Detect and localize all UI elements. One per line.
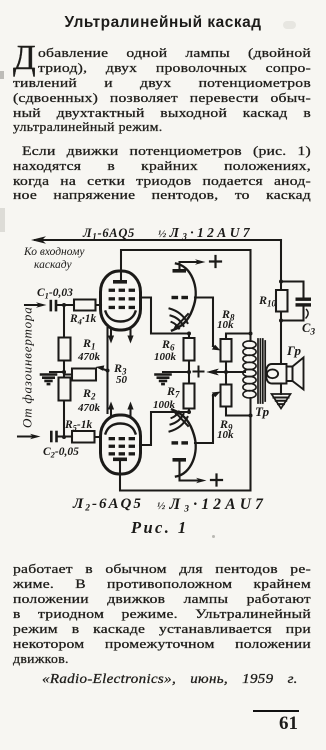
R8 wiper arrow (213, 346, 215, 348)
plus sign at R6/R7 junction (194, 367, 203, 376)
wire: right rail down to R10 (280, 240, 282, 282)
svg-text:10k: 10k (217, 319, 234, 331)
pentode L1 anode (113, 280, 127, 284)
svg-text:½Л3·12АU7: ½Л3·12АU7 (157, 496, 267, 515)
L2 cathode lead arrows (110, 407, 112, 416)
potentiometer R9 (221, 385, 232, 407)
svg-text:От фазоинвертора: От фазоинвертора (20, 306, 35, 428)
potentiometer R8 (221, 339, 232, 362)
node junction dot center tap (224, 370, 228, 374)
label C2 (43, 446, 79, 460)
wire: R9 bottom to transformer bottom (226, 407, 251, 416)
plus sign at center tap (194, 367, 204, 377)
pentode L2 anode (113, 458, 127, 462)
svg-text:R2: R2 (82, 386, 96, 402)
drop cap (13, 40, 36, 75)
wire: triode V3b grid to R9 wiper (195, 395, 213, 443)
R9 wiper arrow (213, 395, 215, 397)
pentode L2 grids (109, 437, 135, 456)
node junction dot R10 top (279, 280, 283, 284)
svg-text:470k: 470k (77, 402, 101, 414)
arrowhead toward junction (207, 369, 219, 375)
paragraph 2 (22, 143, 311, 158)
page number 61 (279, 713, 298, 735)
node junction dot transformer top (249, 332, 253, 336)
node junction dot R6 top (187, 332, 191, 336)
svg-text:100k: 100k (154, 351, 177, 363)
faint speck near figure caption (212, 535, 215, 538)
R3 wiper arrow (102, 369, 108, 371)
left edge scan marks (0, 208, 5, 232)
wire: speaker to ground (280, 384, 282, 395)
node junction dot R6/R7 (187, 370, 191, 374)
wire: U3b anode to plus (180, 462, 203, 481)
node label: Ot fazoinvertora (vertical) (20, 306, 35, 428)
svg-text:470k: 470k (77, 351, 101, 363)
svg-text:Рис. 1: Рис. 1 (130, 518, 188, 537)
wire: junction to ground (163, 371, 189, 373)
label R9 10k (217, 417, 234, 441)
label Tr (255, 404, 270, 419)
arrowhead to input cascade (31, 236, 46, 244)
resistor R10 (276, 282, 288, 321)
resistor R2 (59, 372, 71, 437)
resistor R6 (184, 334, 195, 373)
triode U3a cathode (170, 309, 189, 329)
node junction dot R1/R2 (62, 370, 66, 374)
svg-text:Тр: Тр (255, 404, 270, 419)
wire: down to speaker (280, 321, 282, 365)
wire: input 2 (18, 435, 36, 437)
svg-text:10k: 10k (217, 429, 234, 441)
label R1 470k (77, 336, 101, 363)
svg-text:R5-1k: R5-1k (64, 419, 93, 433)
svg-text:R1: R1 (82, 336, 96, 352)
triode U3a anode (173, 269, 187, 273)
pentode L2 cathode (106, 424, 136, 434)
pentode L2 envelope (101, 415, 141, 474)
svg-text:R4·1k: R4·1k (69, 313, 97, 327)
svg-text:50: 50 (116, 374, 128, 386)
wire: L2 screen to R7 bottom (140, 412, 189, 445)
svg-text:С2-0,05: С2-0,05 (43, 446, 79, 460)
source line (42, 671, 298, 686)
triode U3b cathode (170, 412, 189, 432)
wire: input 1 (25, 304, 42, 306)
capacitor C3 (281, 298, 311, 321)
triode U3a grid (172, 296, 189, 299)
node junction dot C1/R1 (62, 303, 66, 307)
wire: C1 to R4 (57, 304, 74, 306)
node junction dot transformer bottom (249, 414, 253, 418)
label R10 (258, 293, 277, 309)
label R4 1k (69, 313, 97, 327)
label C3 (302, 321, 315, 338)
label R3 50 (113, 361, 128, 386)
capacitor C2 (50, 431, 58, 443)
pentode L1 cathode (106, 312, 136, 322)
capacitor C1 (50, 300, 58, 312)
label R7 100k (153, 384, 180, 411)
paragraph 1 (38, 45, 311, 60)
label C1 (37, 287, 73, 301)
wire: L1 screen to R6 top (140, 298, 189, 334)
wire: center tap with + supply arrow (212, 371, 245, 373)
resistor R5 (72, 431, 101, 443)
plus sign U3b (211, 475, 222, 486)
triode U3b envelope (172, 410, 196, 477)
svg-text:каскаду: каскаду (34, 259, 72, 271)
label Gr (286, 343, 301, 358)
tube label L2-6AQ5 (72, 496, 143, 514)
ground (R1/R2 junction) (41, 375, 56, 385)
figure caption Ris. 1 (130, 518, 188, 537)
wire: C2 to R5 (58, 435, 72, 437)
triode U3a envelope (172, 264, 196, 331)
wire: top feedback rail (35, 239, 281, 241)
svg-text:Л2-6АQ5: Л2-6АQ5 (72, 496, 143, 514)
transformer Tr primary winding (243, 341, 256, 398)
triode U3b grid (172, 441, 189, 444)
node junction dot R7 bottom (187, 410, 191, 414)
node junction dot C2/R2 (62, 435, 66, 439)
ground (R6/R7 junction) (156, 375, 171, 385)
label R5 1k (64, 419, 93, 433)
node junction dot R10 bottom (279, 319, 283, 323)
tube label L1-6AQ5 (82, 226, 135, 242)
node label: Ko vhodnomu kaskadu (23, 246, 85, 271)
label R8 10k (217, 307, 235, 331)
faint top-right smudge (283, 21, 296, 29)
svg-text:С1-0,03: С1-0,03 (37, 287, 73, 301)
svg-text:Гр: Гр (286, 343, 301, 358)
L1 cathode lead arrows (110, 330, 112, 339)
label R2 470k (77, 386, 101, 414)
transformer Tr core (258, 339, 265, 403)
svg-text:R7: R7 (166, 384, 180, 400)
wire: R8 to R9 (225, 362, 227, 385)
resistor R4 (74, 300, 101, 311)
wire: U3a anode to plus (180, 262, 202, 269)
paragraph 3 (below figure) (13, 561, 311, 576)
resistor R1 (59, 305, 71, 372)
plus sign U3a (210, 256, 221, 267)
triode U3b anode (173, 458, 187, 462)
pentode L1 envelope (101, 271, 141, 330)
tube label 1/2L3-12AU7 bottom (157, 496, 267, 515)
wire: L1 anode to transformer line (121, 250, 251, 341)
page title (0, 14, 326, 32)
svg-text:С3: С3 (302, 321, 315, 338)
wire: L1 cathode down to R3 and L2 (106, 328, 108, 413)
pentode L1 grids (109, 289, 135, 309)
wire: to C3 top (281, 282, 304, 298)
loudspeaker Gr (266, 358, 304, 390)
ground (speaker) (272, 394, 291, 409)
label R6 100k (154, 337, 177, 363)
wire: junction to ground (50, 371, 64, 373)
resistor R7 (184, 372, 195, 412)
tube label 1/2L3-12AU7 top (158, 225, 253, 242)
wire: R8 top to transformer (226, 334, 251, 340)
footer rule (253, 710, 299, 712)
svg-text:R10: R10 (258, 293, 277, 309)
node junction dot cathode/R3 (106, 369, 110, 373)
svg-text:Ко входному: Ко входному (23, 246, 85, 258)
wire: triode V3a grid to R8 wiper (195, 298, 213, 347)
wire: transformer bottom rail to L2 anode (120, 398, 251, 491)
potentiometer R3 (64, 369, 96, 381)
